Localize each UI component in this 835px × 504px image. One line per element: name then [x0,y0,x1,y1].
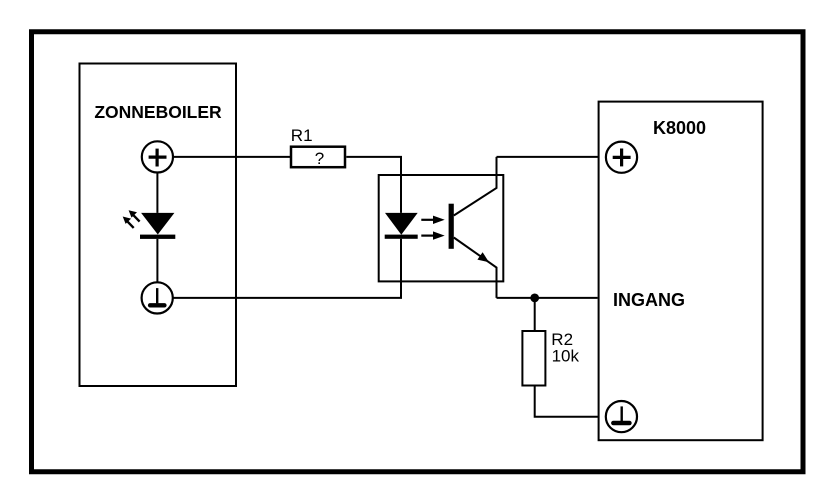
svg-text:ZONNEBOILER: ZONNEBOILER [94,102,222,122]
svg-text:K8000: K8000 [653,118,706,138]
svg-text:INGANG: INGANG [613,290,685,310]
svg-text:R1: R1 [291,126,313,145]
wire junction to R2 [534,298,536,331]
wire plus terminal to LED anode [156,173,158,213]
LED light arrows [123,210,140,228]
LED (zonneboiler indicator) [140,213,175,239]
terminal + (K8000 plus) [606,142,637,173]
optocoupler box [379,175,504,281]
block K8000 box [599,102,763,441]
ground terminal (zonneboiler) [142,282,173,313]
wire R1 to optocoupler LED [346,157,401,213]
ground terminal (K8000) [606,401,637,432]
wire collector to K8000 plus [497,156,599,158]
resistor R2 [522,331,545,386]
wire LED cathode to ground terminal [156,239,158,282]
resistor R1 [291,147,345,168]
wire plus terminal to R1 [173,156,290,158]
junction node INGANG/R2 [530,294,539,303]
phototransistor [449,157,497,298]
optocoupler LED [385,213,418,239]
wire emitter to K8000 INGANG [497,297,598,299]
wire opto LED cathode down and left to zonneboiler ground [173,239,401,298]
wire R2 to K8000 ground [535,386,599,417]
optocoupler light arrows [421,216,444,240]
terminal + (zonneboiler plus) [142,141,173,172]
svg-text:?: ? [315,149,324,168]
svg-text:10k: 10k [552,347,580,366]
block ZONNEBOILER box [80,64,237,387]
